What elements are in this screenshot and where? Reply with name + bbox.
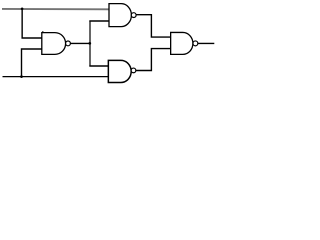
nand gate U3 body xyxy=(108,60,131,82)
node N1 junction dot xyxy=(88,42,91,45)
nand gate U4 body xyxy=(171,32,193,54)
wire N1 to gate U3 upper input xyxy=(89,65,108,67)
nand gate U2 body xyxy=(109,4,131,27)
nand gate U1 output bubble xyxy=(66,41,71,46)
wire B to gate U1 lower input xyxy=(22,49,42,77)
nand gate U3 output bubble xyxy=(131,68,136,73)
wire U2 output N2 to gate U4 upper input xyxy=(136,15,171,37)
nand gate U1 corner notch xyxy=(42,31,43,32)
wire input A (top horizontal) xyxy=(2,8,109,10)
wire A to gate U1 upper input xyxy=(22,9,42,38)
nand gate U4 output bubble xyxy=(193,41,198,46)
wire input B (bottom horizontal) xyxy=(3,76,109,78)
node B junction dot xyxy=(20,75,23,78)
nand gate U1 body xyxy=(42,33,66,55)
wire N1 vertical branch xyxy=(89,21,91,66)
node A junction dot xyxy=(21,8,24,11)
wire N1 to gate U2 lower input xyxy=(89,20,109,22)
wire output Y (right) xyxy=(198,42,214,44)
nand gate U2 output bubble xyxy=(131,13,136,18)
wire U3 output N3 to gate U4 lower input xyxy=(136,49,171,71)
wire U1 output to node N1 xyxy=(71,42,90,44)
